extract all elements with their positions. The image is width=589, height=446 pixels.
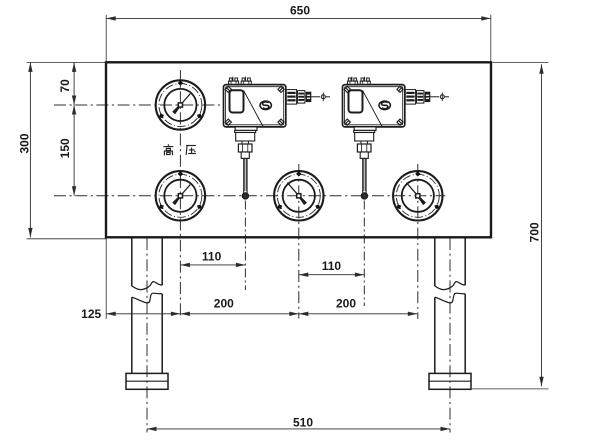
dimension 200b arrow left [299,312,309,316]
dimension 150 arrow top [72,105,76,115]
dimension 650 arrow right [481,16,491,20]
svg-text:150: 150 [58,138,72,158]
pressure switch 1 [224,77,331,200]
gauge column 1 centerline [179,70,181,319]
extension line top-left [27,61,106,63]
dimension 110b arrow left [299,273,309,277]
panel outline [106,62,491,237]
left leg centerline [146,238,148,433]
pressure gauge 1 (top row) [156,80,205,129]
svg-text:110: 110 [322,259,342,273]
dimension 110a line [180,264,245,266]
dimension 700 extension top [493,61,549,63]
pressure gauge 3 [274,171,323,220]
extension line panel left lower [105,238,107,319]
dimension 125 line [106,313,180,315]
dimension 700 line [541,64,543,386]
dimension 70 line [73,62,75,105]
dimension 650 line [106,17,491,19]
row-2 horizontal centerline [54,195,445,197]
svg-text:510: 510 [293,415,313,429]
pressure gauge 4 [393,171,442,220]
label ya (pressure) [186,146,196,156]
label gao (high) [163,144,173,155]
dimension 200a arrow right [289,312,299,316]
svg-text:200: 200 [336,296,356,310]
dimension 300 line [29,62,31,237]
pressure gauge 2 [156,171,205,220]
svg-text:70: 70 [58,79,72,93]
dimension 700 arrow bottom [539,377,543,387]
dimension 200a line [180,313,298,315]
svg-text:110: 110 [202,249,222,263]
svg-text:200: 200 [214,296,234,310]
right support leg [429,238,471,389]
dimension 510 arrow left [147,427,157,431]
dimension 150 arrow bottom [72,186,76,196]
dimension 110a arrow right [236,263,246,267]
dimension 650 extension left [105,15,107,62]
dimension 700 extension bottom [472,388,549,390]
dimension 125 arrow right [171,312,181,316]
dimension 650 extension right [490,15,492,62]
probe 1 column centerline [244,201,246,291]
dimension 300 arrow top [28,62,32,72]
dimension 200a arrow left [180,312,190,316]
gauge column 3 centerline [298,164,300,319]
svg-text:125: 125 [81,307,101,321]
dimension 510 line [147,428,450,430]
dimension 125 arrow left [106,312,116,316]
extension line bottom-left [27,238,106,240]
dimension 110a arrow left [180,263,190,267]
dimension 700 arrow top [539,64,543,74]
row-1 horizontal centerline [54,104,224,106]
pressure switch 2 [343,77,450,200]
dimension 70 arrow top [72,62,76,72]
svg-text:700: 700 [527,222,541,242]
dimension 200b line [299,313,418,315]
right leg centerline [449,238,451,433]
dimension 110b line [299,274,365,276]
svg-text:300: 300 [18,133,32,153]
left support leg [126,238,168,389]
gauge column 4 centerline [417,164,419,319]
dimension 200b arrow right [408,312,418,316]
dimension 110b arrow right [355,273,365,277]
dimension 70 arrow bottom [72,96,76,106]
dimension 510 arrow right [441,427,451,431]
svg-text:650: 650 [290,4,310,18]
dimension 650 arrow left [106,16,116,20]
dimension 150 line [73,105,75,196]
dimension 300 arrow bottom [28,228,32,238]
probe 2 column centerline [363,201,365,307]
